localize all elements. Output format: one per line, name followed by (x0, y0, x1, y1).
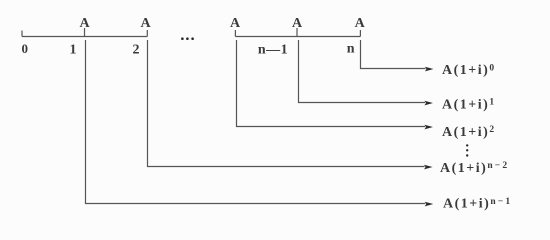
svg-text:n: n (347, 42, 355, 57)
wire from period n-1 (299, 40, 426, 103)
svg-text:A: A (230, 16, 241, 31)
svg-text:0: 0 (21, 41, 28, 56)
wire from period n (361, 40, 426, 69)
arrowhead row 4 (424, 165, 433, 170)
svg-text:n—1: n—1 (258, 43, 288, 58)
svg-text:A(1+i)n−2: A(1+i)n−2 (440, 161, 509, 176)
svg-text:A: A (140, 16, 151, 31)
vertical ellipsis dots (466, 144, 468, 146)
tick 2 (146, 30, 148, 37)
svg-text:1: 1 (70, 43, 77, 58)
svg-text:A(1+i)1: A(1+i)1 (442, 97, 496, 112)
timeline segment 0-2 (22, 36, 147, 38)
ellipsis dots on timeline (181, 37, 184, 40)
wire from period 2 (148, 40, 425, 167)
tick n (359, 30, 361, 37)
tick n-2 (234, 30, 236, 37)
svg-text:A(1+i)n−1: A(1+i)n−1 (443, 197, 512, 212)
tick n-1 (296, 28, 298, 37)
svg-text:A: A (292, 16, 303, 31)
wire from period n-2 (237, 40, 426, 127)
wire from period 1 (86, 40, 426, 204)
arrowhead row 2 (424, 101, 433, 106)
svg-text:2: 2 (133, 43, 140, 58)
arrowhead row 5 (425, 202, 434, 207)
svg-text:A: A (79, 16, 90, 31)
arrowhead row 3 (424, 125, 433, 130)
svg-text:A: A (355, 16, 366, 31)
svg-text:A(1+i)2: A(1+i)2 (442, 125, 496, 140)
tick 0 (21, 31, 23, 37)
svg-text:A(1+i)0: A(1+i)0 (442, 63, 496, 78)
arrowhead row 1 (425, 67, 434, 72)
timeline segment n-2 to n (235, 36, 360, 38)
tick 1 (84, 28, 86, 37)
